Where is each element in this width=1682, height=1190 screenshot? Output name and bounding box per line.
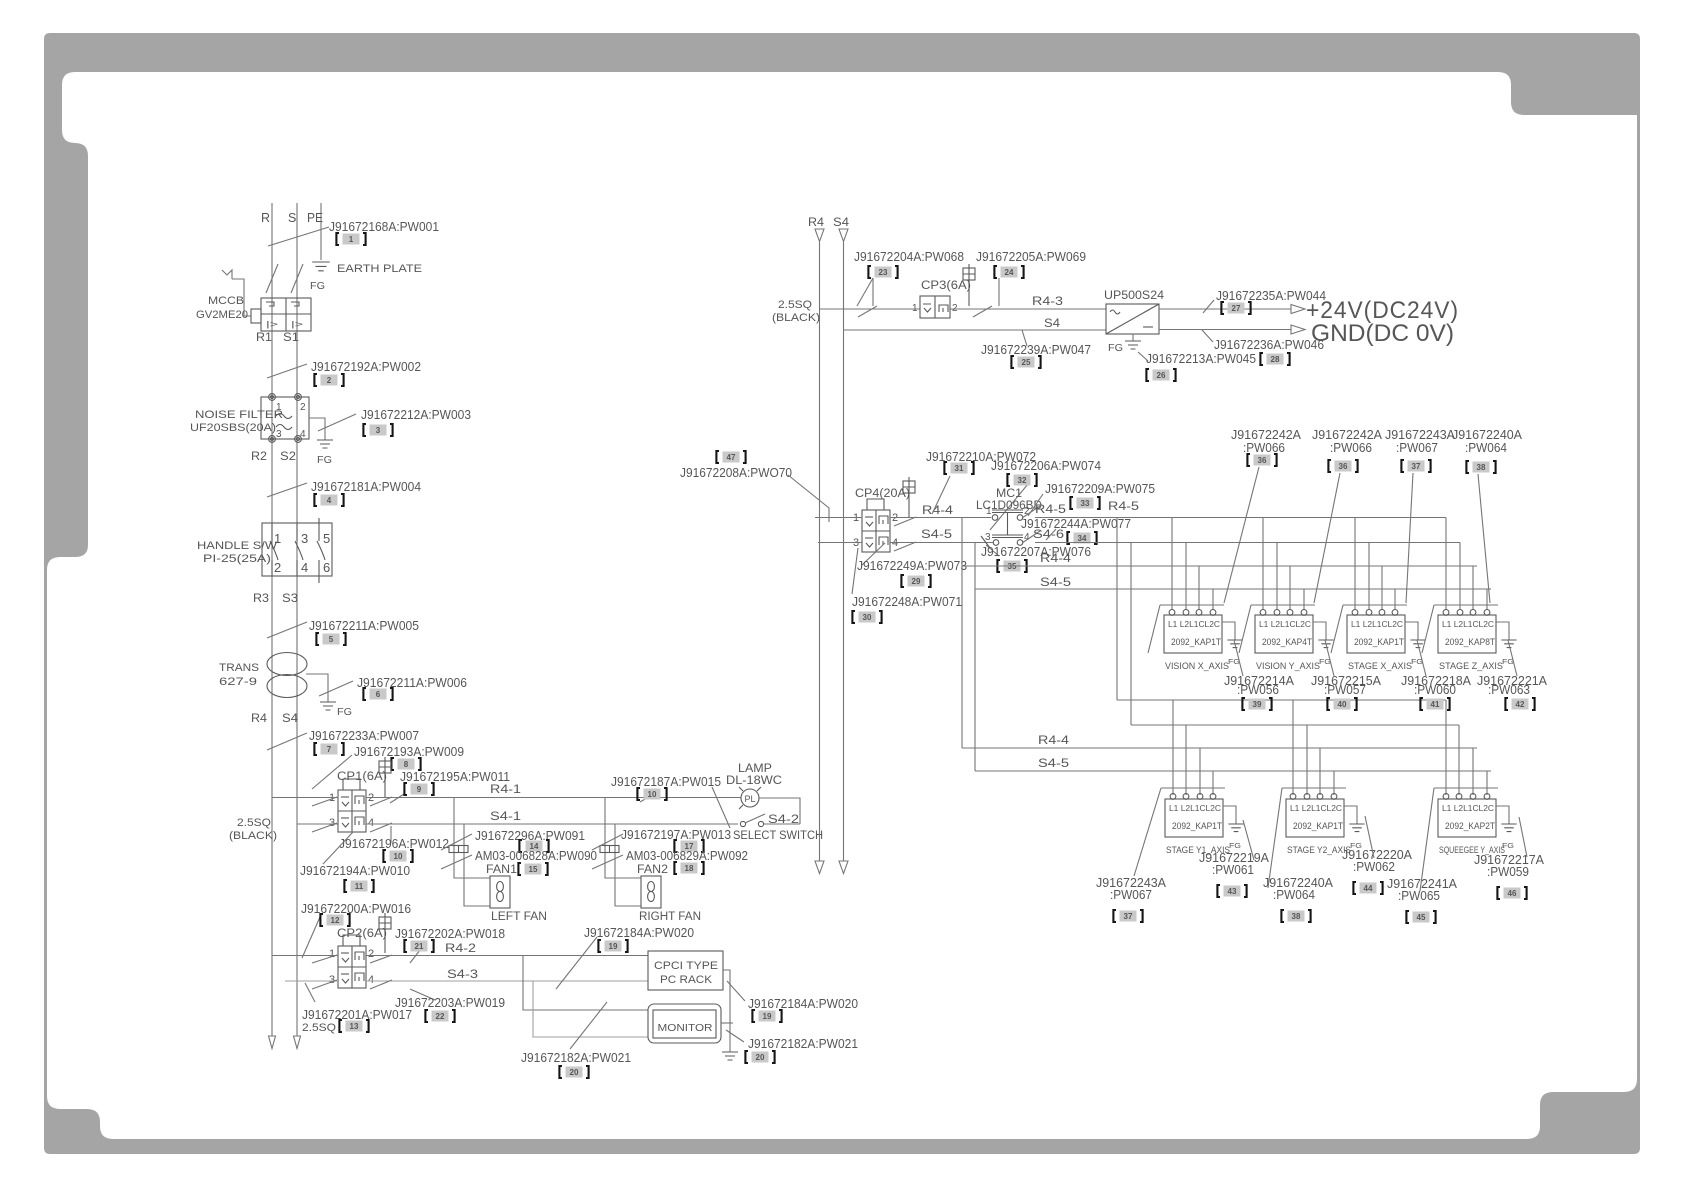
arrow R phase bottom (269, 1036, 276, 1049)
cable leader PW075 (1028, 494, 1043, 516)
cable tag 45 bottom (1406, 911, 1435, 923)
label J91672244A:PW077 (1021, 516, 1131, 531)
cable tag 37 bottom (1113, 910, 1142, 922)
svg-text:24: 24 (1005, 268, 1014, 277)
cable leader J91672214A mid (1234, 640, 1243, 676)
svg-text:S1: S1 (283, 330, 299, 344)
cable leader J91672242A top (1314, 473, 1340, 603)
label 627-9 (219, 676, 257, 688)
svg-text:S3: S3 (282, 591, 298, 605)
wire GND out (1159, 329, 1291, 331)
svg-text:FG: FG (317, 454, 332, 466)
lamp PL (739, 787, 761, 809)
svg-text:NOISE FILTER: NOISE FILTER (195, 409, 283, 421)
svg-text:PI-25(25A): PI-25(25A) (203, 553, 271, 565)
cable tag 8 (391, 758, 420, 770)
svg-text:AM03-006829A:PW092: AM03-006829A:PW092 (626, 848, 748, 863)
cable tag 34 (1067, 532, 1096, 544)
svg-text:36: 36 (1339, 462, 1348, 471)
svg-text::PW061: :PW061 (1212, 862, 1254, 877)
label CP1(6A) (337, 771, 387, 783)
svg-text:|>: |> (266, 319, 278, 329)
cable tag 4 (314, 494, 343, 506)
cable leader PW003 (318, 414, 356, 431)
cable tag 30 (852, 611, 881, 623)
wire lamp right (759, 798, 800, 824)
label J91672296A:PW091 (475, 828, 585, 843)
pin 3 CP2 (329, 974, 335, 986)
node R4 arrow top (808, 215, 824, 242)
label FAN2 (637, 864, 668, 876)
svg-text:|>: |> (291, 319, 303, 329)
label LC1D096BD (976, 500, 1042, 512)
servo amp U2 VISION Y_AXIS (1255, 610, 1334, 672)
svg-text:LEFT FAN: LEFT FAN (491, 911, 547, 923)
cable tag 32 (1007, 474, 1036, 486)
svg-text:37: 37 (1412, 462, 1421, 471)
cable tag 20 right (745, 1051, 774, 1063)
cable bar amp U1 (1148, 605, 1224, 653)
svg-text:23: 23 (879, 268, 888, 277)
cable leader PW069 (998, 278, 1000, 306)
svg-text:8: 8 (404, 760, 409, 769)
transformer ground FG (320, 702, 336, 710)
cable bar amp U5 (1161, 787, 1225, 789)
cable tag 26 (1146, 369, 1175, 381)
label J91672182A:PW021 right (748, 1036, 858, 1051)
label LEFT FAN (491, 911, 547, 923)
cable tag 43 bottom (1217, 885, 1246, 897)
label LAMP (738, 763, 772, 775)
cable tag 15 (518, 863, 547, 875)
wire V1 tap (961, 518, 963, 749)
cable tag 12 (320, 914, 349, 926)
cable leader PW013 (592, 834, 623, 850)
svg-text:J91672207A:PW076: J91672207A:PW076 (981, 544, 1091, 559)
pin 2 CP2 (368, 948, 374, 960)
svg-text::PW063: :PW063 (1488, 682, 1530, 697)
svg-text:VISION X_AXIS: VISION X_AXIS (1165, 661, 1229, 671)
svg-text:S4: S4 (833, 215, 849, 229)
svg-text:2: 2 (274, 560, 281, 575)
label R4-1 (490, 784, 521, 796)
svg-text::PW056: :PW056 (1237, 682, 1279, 697)
svg-text:J91672192A:PW002: J91672192A:PW002 (311, 359, 421, 374)
label EARTH PLATE (337, 263, 422, 275)
cable leader J91672221A mid (1508, 640, 1517, 676)
svg-text:J91672249A:PW073: J91672249A:PW073 (857, 558, 967, 573)
cable slash PW044 (1203, 300, 1214, 313)
cable leader J91672243A top (1406, 473, 1413, 603)
label S4-6 (1033, 529, 1064, 541)
svg-text:FG: FG (337, 706, 352, 718)
svg-text:CP4(20A): CP4(20A) (855, 488, 910, 500)
cable leader PW076 (986, 545, 999, 556)
label (BLACK) left (229, 830, 277, 842)
svg-text:L1 L2L1CL2C: L1 L2L1CL2C (1351, 620, 1403, 629)
svg-text:J91672168A:PW001: J91672168A:PW001 (329, 219, 439, 234)
pin 4 CP1 (368, 817, 374, 829)
breaker CP2 (338, 913, 391, 988)
label J91672187A:PW015 (611, 774, 721, 789)
label J91672217A:PW059 bottom (1474, 852, 1544, 879)
cable tag 19 left (598, 940, 627, 952)
svg-text:1: 1 (349, 235, 354, 244)
arrow R4 bus bottom (815, 861, 824, 874)
svg-text:28: 28 (1271, 355, 1280, 364)
cable slash PW011 (390, 794, 404, 803)
label S4-5 row (921, 529, 952, 541)
svg-text:FG: FG (310, 280, 325, 292)
svg-text:2092_KAP1T: 2092_KAP1T (1293, 821, 1343, 831)
label J91672184A:PW020 left (584, 925, 694, 940)
svg-text::PW065: :PW065 (1398, 888, 1440, 903)
wire S4-5 row left (818, 542, 862, 544)
svg-text:40: 40 (1338, 700, 1347, 709)
svg-text:S4: S4 (1044, 318, 1061, 330)
svg-text:FAN2: FAN2 (637, 864, 668, 876)
label J91672243A:PW067 top (1385, 427, 1455, 455)
svg-text:5: 5 (329, 635, 334, 644)
pin 1 CP2 (329, 948, 335, 960)
svg-text:J91672193A:PW009: J91672193A:PW009 (354, 744, 464, 759)
pin 2 CP4 (892, 512, 898, 524)
label MONITOR (658, 1022, 713, 1034)
cable tag 11 (344, 880, 373, 892)
servo amp U3 STAGE X_AXIS (1347, 610, 1426, 672)
svg-text:MONITOR: MONITOR (658, 1022, 713, 1034)
label R4-5 b (1108, 501, 1139, 513)
svg-text:SELECT SWITCH: SELECT SWITCH (733, 830, 823, 842)
svg-text:37: 37 (1124, 912, 1133, 921)
svg-text:39: 39 (1253, 700, 1262, 709)
svg-text::PW059: :PW059 (1487, 864, 1529, 879)
label CP4(20A) (855, 488, 910, 500)
label J91672219A:PW061 bottom (1199, 850, 1269, 877)
label FG transformer (337, 706, 352, 718)
cable leader J91672217A bottom (1519, 817, 1527, 857)
label DL-18WC (726, 775, 782, 787)
wire R phase vertical (271, 203, 273, 1036)
node S4 arrow top (833, 215, 849, 242)
MCCB handle (222, 270, 251, 316)
label 2.5SQ right (778, 299, 812, 311)
svg-text::PW064: :PW064 (1273, 887, 1315, 902)
svg-text:43: 43 (1228, 887, 1237, 896)
cable tag 25 (1011, 356, 1040, 368)
svg-text:J91672202A:PW018: J91672202A:PW018 (395, 926, 505, 941)
cable bar amp U7 (1434, 787, 1498, 789)
label J91672194A:PW010 (300, 863, 410, 878)
svg-text:18: 18 (685, 864, 694, 873)
svg-text:S2: S2 (280, 449, 296, 463)
cable leader PW045 (1138, 352, 1148, 361)
svg-text:J91672184A:PW020: J91672184A:PW020 (748, 996, 858, 1011)
cable tag 41 mid (1420, 698, 1449, 710)
node R3 label (253, 591, 269, 605)
svg-text:2: 2 (300, 402, 306, 413)
fan FAN1 wiring+symbol (449, 798, 510, 909)
svg-text:627-9: 627-9 (219, 676, 257, 688)
svg-text:FG: FG (1108, 342, 1123, 354)
breaker blade S (291, 264, 303, 293)
cable tag 23 (868, 266, 897, 278)
label GND(DC 0V) (1311, 320, 1454, 347)
svg-text:S4-1: S4-1 (490, 811, 521, 823)
svg-text:38: 38 (1292, 912, 1301, 921)
label J91672193A:PW009 (354, 744, 464, 759)
label FG filter (317, 454, 332, 466)
label NOISE FILTER (195, 409, 283, 421)
svg-text:21: 21 (415, 942, 424, 951)
svg-text:2: 2 (952, 303, 958, 314)
label J91672168A:PW001 (329, 219, 439, 234)
wire R4-1 left (272, 797, 338, 806)
label J91672204A:PW068 (854, 249, 964, 264)
svg-text:47: 47 (727, 453, 736, 462)
label J91672212A:PW003 (361, 407, 471, 422)
servo amp U6 STAGE Y2_AXIS (1286, 794, 1365, 856)
svg-text::PW062: :PW062 (1353, 859, 1395, 874)
wire V3 tap (1116, 518, 1118, 701)
label J91672203A:PW019 (395, 995, 505, 1010)
svg-text:J91672194A:PW010: J91672194A:PW010 (300, 863, 410, 878)
cable tag 40 mid (1327, 698, 1356, 710)
svg-text::PW060: :PW060 (1414, 682, 1456, 697)
svg-text:(BLACK): (BLACK) (229, 830, 277, 842)
label J91672218A:PW060 mid (1401, 673, 1471, 697)
svg-text:J91672196A:PW012: J91672196A:PW012 (339, 836, 449, 851)
wire S4-5 row mid (890, 542, 993, 551)
label J91672239A:PW047 (981, 342, 1091, 357)
label J91672233A:PW007 (309, 728, 419, 743)
label FG psu (1108, 342, 1123, 354)
svg-text:4: 4 (368, 974, 374, 986)
cable tag 2 (314, 374, 343, 386)
cable tag 38 bottom (1281, 910, 1310, 922)
svg-text:L1 L2L1CL2C: L1 L2L1CL2C (1442, 620, 1494, 629)
cable tag 38 top (1466, 461, 1495, 473)
wire R4-4 row mid (890, 517, 991, 526)
label J91672195A:PW011 (400, 769, 510, 784)
psu UP500S24 (1106, 304, 1159, 334)
node PE label (307, 211, 323, 225)
cable slash PW019 (410, 989, 435, 1000)
svg-text:2: 2 (327, 376, 332, 385)
svg-text:J91672195A:PW011: J91672195A:PW011 (400, 769, 510, 784)
svg-text:J91672184A:PW020: J91672184A:PW020 (584, 925, 694, 940)
label J91672248A:PW071 (852, 594, 962, 609)
svg-text:3: 3 (329, 974, 335, 986)
svg-text:36: 36 (1258, 456, 1267, 465)
svg-text:S4: S4 (282, 711, 298, 725)
svg-text:J91672233A:PW007: J91672233A:PW007 (309, 728, 419, 743)
svg-text:20: 20 (570, 1068, 579, 1077)
svg-text:J91672209A:PW075: J91672209A:PW075 (1045, 481, 1155, 496)
label J91672213A:PW045 (1146, 351, 1256, 366)
label J91672241A:PW065 bottom (1387, 876, 1457, 903)
svg-text:MC1: MC1 (996, 488, 1022, 500)
svg-text:R4-2: R4-2 (445, 943, 476, 955)
cable tag 24 (994, 266, 1023, 278)
label R4-3 (1032, 296, 1063, 308)
label J91672240A:PW064 top (1452, 427, 1522, 455)
select switch S4-2 (740, 814, 800, 827)
svg-text:EARTH PLATE: EARTH PLATE (337, 263, 422, 275)
node R label (261, 211, 270, 225)
svg-text:2092_KAP4T: 2092_KAP4T (1262, 637, 1312, 647)
wire R4-4 row left (815, 517, 862, 519)
wire R4-2 (366, 955, 648, 963)
cable leader PW077 (1046, 529, 1056, 540)
svg-text:STAGE X_AXIS: STAGE X_AXIS (1348, 661, 1412, 671)
label J91672200A:PW016 (301, 901, 411, 916)
svg-text:J91672208A:PWO70: J91672208A:PWO70 (680, 465, 792, 480)
cable leader PW091 (441, 834, 472, 850)
cable tag 47 (716, 451, 745, 463)
cable leader PW016 (302, 917, 320, 958)
svg-text:L1 L2L1CL2C: L1 L2L1CL2C (1169, 804, 1221, 813)
label J91672192A:PW002 (311, 359, 421, 374)
wire drops amp1 (1172, 518, 1217, 611)
cable tag 5 (316, 633, 345, 645)
wire +24V out (1159, 308, 1291, 310)
svg-text:7: 7 (327, 745, 332, 754)
svg-text:5: 5 (323, 531, 330, 546)
svg-text:26: 26 (1157, 371, 1166, 380)
contactor MC1 upper (986, 506, 1030, 535)
label J91672205A:PW069 (976, 249, 1086, 264)
svg-text:25: 25 (1022, 358, 1031, 367)
svg-text:VISION Y_AXIS: VISION Y_AXIS (1256, 661, 1320, 671)
cable tag 37 top (1401, 460, 1430, 472)
wire transformer FG tap (306, 674, 328, 702)
label UP500S24 (1104, 290, 1165, 302)
label J91672184A:PW020 right (748, 996, 858, 1011)
wire V4 tap (1130, 543, 1132, 726)
label S4-1 (490, 811, 521, 823)
label J91672202A:PW018 (395, 926, 505, 941)
label J91672201A:PW017 (302, 1007, 412, 1022)
label J91672197A:PW013 (621, 827, 731, 842)
svg-text::PW064: :PW064 (1465, 440, 1507, 455)
label S4 row (1044, 318, 1061, 330)
svg-text:27: 27 (1232, 304, 1241, 313)
svg-text:J91672204A:PW068: J91672204A:PW068 (854, 249, 964, 264)
svg-text:PE: PE (307, 211, 323, 225)
svg-text:GV2ME20: GV2ME20 (196, 309, 248, 321)
wire rack drop S4-3 (533, 981, 648, 1037)
svg-text:J91672181A:PW004: J91672181A:PW004 (311, 479, 421, 494)
svg-text:3: 3 (376, 426, 381, 435)
svg-text:J91672213A:PW045: J91672213A:PW045 (1146, 351, 1256, 366)
label S4-3 (447, 969, 478, 981)
label CPCI TYPE (654, 960, 718, 972)
svg-text:R: R (261, 211, 270, 225)
cable leader PW021 left (570, 1002, 607, 1049)
wire monitor right tick (721, 1022, 733, 1024)
cable tag 19 right (752, 1010, 781, 1022)
svg-text:34: 34 (1078, 534, 1087, 543)
label S4-5 row4 (1040, 577, 1071, 589)
cable leader J91672240A top (1478, 474, 1490, 603)
svg-text:46: 46 (1508, 889, 1517, 898)
svg-text:32: 32 (1018, 476, 1027, 485)
cable bar amp U3 (1331, 605, 1407, 653)
servo amp U5 STAGE Y1_AXIS (1165, 794, 1244, 856)
svg-text:AM03-006828A:PW090: AM03-006828A:PW090 (475, 848, 597, 863)
cable leader J91672218A mid (1417, 640, 1426, 676)
wire R4-1 (366, 797, 741, 806)
node R4 label left (251, 711, 267, 725)
svg-text:J91672211A:PW006: J91672211A:PW006 (357, 675, 467, 690)
svg-text:S: S (288, 211, 296, 225)
cable slash PW046 (1202, 330, 1213, 342)
svg-text:4: 4 (301, 560, 308, 575)
svg-text:2092_KAP2T: 2092_KAP2T (1445, 821, 1495, 831)
cable tag 3 (363, 424, 392, 436)
cable tag 21 (404, 940, 433, 952)
label 2.5SQ left (237, 817, 271, 829)
cable bar amp U4 (1422, 605, 1498, 653)
cable leader PW070 (788, 475, 829, 522)
svg-text:R4-4: R4-4 (922, 505, 954, 517)
arrow S4 bus bottom (839, 861, 848, 874)
svg-text:10: 10 (648, 790, 657, 799)
label J91672249A:PW073 (857, 558, 967, 573)
svg-text:R4-4: R4-4 (1040, 553, 1072, 565)
label RIGHT FAN (639, 911, 701, 923)
svg-text:2: 2 (368, 948, 374, 960)
svg-text:TRANS: TRANS (219, 662, 259, 674)
pin 1 CP3 (912, 303, 918, 314)
svg-text:3: 3 (329, 817, 335, 829)
svg-text:J91672212A:PW003: J91672212A:PW003 (361, 407, 471, 422)
svg-text:R4-3: R4-3 (1032, 296, 1063, 308)
cable tag 44 bottom (1353, 882, 1382, 894)
svg-text:19: 19 (763, 1012, 772, 1021)
svg-text:1: 1 (329, 948, 335, 960)
label CP2(6A) (337, 928, 387, 940)
label J91672242A:PW066 top (1231, 427, 1301, 455)
cable leader lamp-switch (712, 787, 730, 828)
svg-text:R1: R1 (256, 330, 272, 344)
cable leader PW074 (990, 484, 1028, 530)
cable tag 29 (901, 575, 930, 587)
wire S4-1 left (297, 823, 338, 832)
blade MC1 out R4-5 (1022, 506, 1040, 518)
servo amp U4 STAGE Z_AXIS (1438, 610, 1517, 672)
pin 2 CP3 (952, 303, 958, 314)
svg-text:3: 3 (301, 531, 308, 546)
filter box NOISE FILTER (261, 394, 309, 443)
arrow S phase bottom (294, 1036, 301, 1049)
wire drops amp6 (1289, 700, 1338, 795)
svg-text:22: 22 (436, 1012, 445, 1021)
contactor MC1 lower (981, 532, 1030, 548)
fan FAN2 wiring+symbol (600, 798, 661, 909)
cable leader J91672241A bottom (1420, 788, 1434, 891)
box MONITOR inner (653, 1010, 716, 1038)
svg-text:10: 10 (394, 852, 403, 861)
wire PE vertical (320, 203, 322, 260)
pin 1 CP1 (329, 792, 335, 804)
label S4-5 bus D (1038, 758, 1069, 770)
arrow GND (1291, 325, 1305, 334)
cable tag 46 bottom (1497, 887, 1526, 899)
breaker blade R (266, 264, 278, 293)
label FG earth (310, 280, 325, 292)
